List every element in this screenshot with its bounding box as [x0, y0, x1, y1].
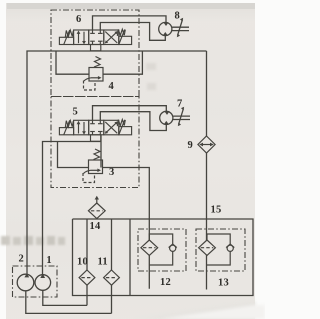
svg-text:9: 9 — [188, 140, 193, 151]
svg-text:8: 8 — [175, 11, 180, 22]
svg-text:7: 7 — [177, 99, 182, 110]
svg-text:1: 1 — [46, 255, 51, 266]
svg-text:11: 11 — [98, 257, 108, 268]
svg-text:13: 13 — [218, 278, 229, 289]
svg-text:15: 15 — [211, 205, 222, 216]
svg-text:10: 10 — [77, 257, 88, 268]
svg-text:12: 12 — [160, 277, 171, 288]
svg-text:6: 6 — [76, 14, 81, 25]
svg-text:3: 3 — [109, 167, 114, 178]
svg-text:2: 2 — [19, 254, 24, 265]
svg-text:4: 4 — [109, 81, 115, 92]
svg-text:5: 5 — [73, 107, 78, 118]
svg-text:14: 14 — [90, 221, 101, 232]
